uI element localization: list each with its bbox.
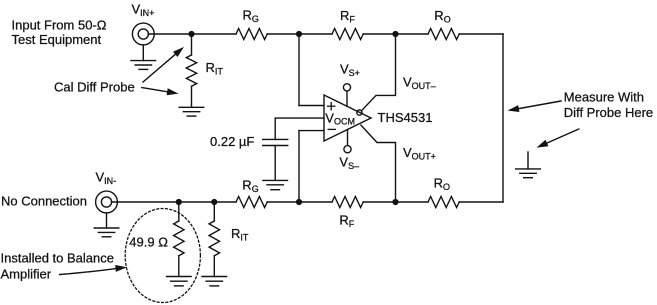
wire VIN+ connector to RG (top rail) [148, 33, 236, 35]
svg-text:Input From 50-Ω: Input From 50-Ω [12, 18, 107, 33]
resistor RO (bottom) [428, 197, 459, 208]
wire right vertical [502, 34, 504, 202]
resistor 49.9 Ohm (vertical) [174, 202, 184, 277]
label 0.22 uF [210, 134, 254, 149]
junction node VOUT- (top, x=395.5) [393, 32, 398, 37]
ground under RIT bottom [202, 277, 227, 286]
resistor RIT (bottom, vertical) [209, 202, 219, 277]
label VIN- [96, 169, 117, 186]
pin VS- terminal circle [344, 146, 351, 153]
label VIN+ [132, 2, 155, 19]
wire VIN- connector to RG (bottom rail) [112, 201, 237, 203]
svg-text:Test Equipment: Test Equipment [12, 32, 102, 47]
label VS+ [340, 62, 360, 79]
resistor RG (bottom) [236, 197, 267, 208]
text Cal Diff Probe [54, 79, 135, 94]
wire -input vertical to bottom junction [298, 131, 300, 202]
minus sign inside op-amp [328, 128, 335, 130]
svg-text:49.9 Ω: 49.9 Ω [129, 235, 168, 250]
svg-text:Diff Probe Here: Diff Probe Here [564, 105, 653, 120]
junction node 49.9 ohm [176, 200, 181, 205]
arrow to probe ground [537, 129, 579, 148]
resistor RO (top) [428, 29, 459, 40]
label RO (bottom) [434, 176, 450, 193]
svg-text:Installed to Balance: Installed to Balance [1, 251, 114, 266]
ground under capacitor [263, 180, 288, 189]
wire VS+ stub [346, 91, 348, 106]
wire RG to RF (top rail) [267, 33, 332, 35]
text No Connection [1, 194, 87, 209]
label VOCM inside op-amp [325, 110, 355, 126]
capacitor C1 0.22uF plates [263, 139, 288, 145]
arrow Installed-to-Balance to ellipse [60, 265, 127, 275]
label RO (top) [434, 8, 450, 25]
label RG (top) [243, 7, 259, 24]
label VS- [339, 155, 359, 172]
resistor RIT (top, vertical) [186, 34, 196, 107]
wire VOCM down to capacitor [274, 118, 276, 139]
connector J1 VIN+ (coax jack) [132, 23, 154, 45]
label RIT (bottom) [231, 226, 249, 243]
wire RO to right edge (top) [459, 33, 503, 35]
svg-text:Measure With: Measure With [564, 89, 644, 104]
ground under 49.9 Ohm [167, 277, 192, 286]
ground under VIN- connector [94, 213, 119, 237]
ground under VIN+ connector [131, 45, 156, 70]
resistor RF (top) [332, 29, 363, 40]
junction node B (bottom, x=299) [297, 200, 302, 205]
label RF (top) [340, 8, 355, 25]
arrow from Cal Diff Probe to top junction [143, 47, 184, 82]
wire RF to RO (bottom rail) [363, 201, 428, 203]
svg-text:0.22 µF: 0.22 µF [210, 134, 254, 149]
text Installed to Balance Amplifier [1, 251, 114, 282]
label VOUT- [403, 74, 436, 91]
label RG (bottom) [242, 178, 258, 195]
wire bottom right horizontal [459, 201, 503, 203]
dashed ellipse around balance resistor [125, 209, 200, 303]
label THS4531 [378, 110, 433, 125]
wire VOUT+ diagonal and to bottom junction [361, 125, 396, 202]
output bubble (inverting output) [357, 110, 362, 115]
resistor RG (top) [236, 29, 267, 40]
wire VOUT- diagonal and to top junction [362, 34, 396, 110]
wire VOCM horizontal [275, 117, 324, 119]
arrow Measure-With to right wire [508, 101, 562, 112]
label 49.9 Ohm [129, 235, 168, 250]
arrow from Cal Diff Probe to RIT bottom [142, 88, 179, 96]
ground (probe reference, floating) [516, 152, 541, 178]
plus sign inside op-amp [328, 103, 335, 110]
wire VS- stub [347, 130, 349, 146]
resistor RF (bottom) [332, 197, 363, 208]
pin VS+ terminal circle [343, 84, 350, 91]
label RF (bottom) [339, 212, 354, 229]
label VOUT+ [403, 145, 436, 162]
junction node VOUT+ (bottom, x=395.5) [393, 200, 398, 205]
svg-text:THS4531: THS4531 [378, 110, 433, 125]
text: Input From 50-Ohm Test Equipment [12, 18, 107, 48]
wire +input horizontal [299, 105, 324, 107]
wire RF to RO (top rail) [363, 33, 428, 35]
svg-text:No Connection: No Connection [1, 194, 87, 209]
junction node RIT bottom [212, 200, 217, 205]
label RIT (top) [206, 60, 224, 77]
ground under RIT top [179, 107, 204, 116]
wire +input vertical from top junction [298, 34, 300, 106]
wire capacitor to ground [274, 146, 276, 181]
svg-text:Cal Diff Probe: Cal Diff Probe [54, 79, 135, 94]
connector J2 VIN- (coax jack) [96, 191, 118, 213]
junction node at RIT top [189, 32, 194, 37]
svg-text:Amplifier: Amplifier [1, 266, 52, 281]
wire RG to RF (bottom rail) [267, 201, 332, 203]
wire -input horizontal [299, 130, 324, 132]
text Measure With Diff Probe Here [564, 89, 653, 120]
op-amp U1 THS4531 triangle [324, 95, 371, 141]
junction node A (top, x=299) [297, 32, 302, 37]
